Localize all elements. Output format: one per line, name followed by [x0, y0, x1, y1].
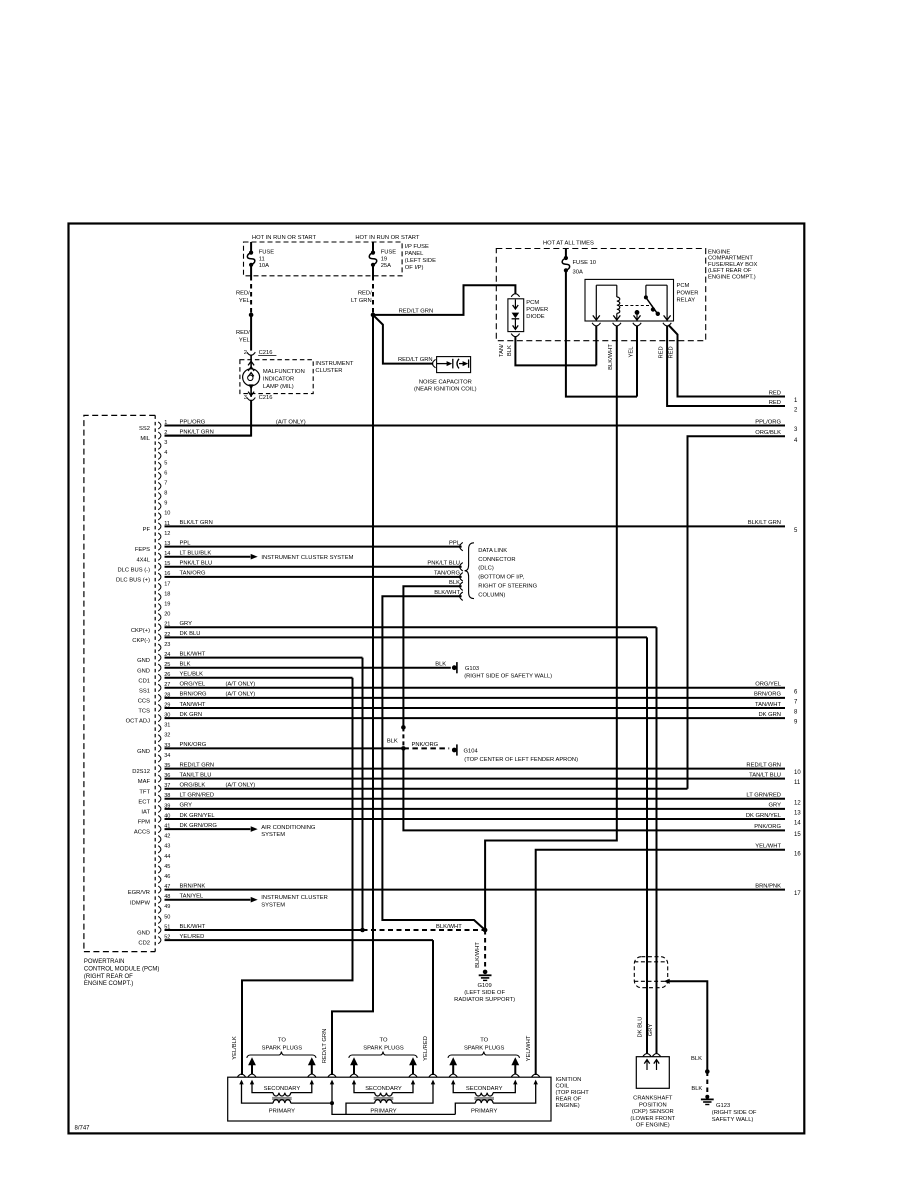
svg-text:ACCS: ACCS — [134, 830, 150, 836]
svg-text:5: 5 — [164, 460, 167, 466]
svg-text:CONTROL MODULE (PCM): CONTROL MODULE (PCM) — [84, 966, 159, 972]
svg-text:C216: C216 — [259, 350, 273, 356]
PCM pin 1 — [158, 422, 161, 429]
svg-text:D2S12: D2S12 — [132, 769, 150, 775]
PCM pin 45 — [158, 866, 161, 873]
svg-text:RED/LT GRN: RED/LT GRN — [180, 762, 215, 768]
svg-text:17: 17 — [164, 581, 170, 587]
svg-text:DLC BUS (-): DLC BUS (-) — [117, 567, 150, 573]
splice dot RED/YEL — [249, 313, 254, 318]
wire RED relay T4 diagonal row1 — [669, 325, 786, 397]
PCM pin 36 — [158, 775, 161, 782]
border frame — [69, 224, 805, 1134]
coil 2 primary winding — [346, 1103, 375, 1114]
svg-text:PRIMARY: PRIMARY — [471, 1108, 497, 1114]
wire pin39 GRY to right edge row 13 — [165, 808, 786, 810]
svg-text:43: 43 — [164, 844, 170, 850]
PCM pin 2 — [158, 432, 161, 439]
svg-text:(DLC): (DLC) — [478, 566, 494, 572]
svg-text:PNK/LT GRN: PNK/LT GRN — [180, 429, 214, 435]
svg-text:3: 3 — [244, 395, 247, 401]
wire BLK dashed to G123 — [706, 1072, 708, 1097]
PCM pin 14 — [158, 553, 161, 560]
svg-text:BLK: BLK — [449, 580, 460, 586]
malfunction indicator lamp (MIL) — [243, 369, 260, 386]
svg-text:YEL/WHT: YEL/WHT — [526, 1035, 532, 1061]
wire pin25 BLK to G103 — [165, 667, 451, 669]
svg-text:G109: G109 — [478, 983, 492, 989]
svg-text:4X4L: 4X4L — [136, 557, 150, 563]
PCM pin 39 — [158, 805, 161, 812]
svg-text:PANEL: PANEL — [405, 251, 424, 257]
svg-text:POWERTRAIN: POWERTRAIN — [84, 959, 125, 965]
svg-text:DLC BUS (+): DLC BUS (+) — [116, 578, 150, 584]
svg-text:RED/LT GRN: RED/LT GRN — [746, 762, 781, 768]
svg-text:3: 3 — [164, 440, 167, 446]
svg-text:(RIGHT SIDE OF SAFETY WALL): (RIGHT SIDE OF SAFETY WALL) — [464, 674, 552, 680]
coil 3 secondary winding — [453, 1082, 475, 1093]
svg-text:YEL: YEL — [239, 337, 251, 343]
svg-text:CD1: CD1 — [138, 678, 150, 684]
svg-text:YEL/BLK: YEL/BLK — [180, 672, 204, 678]
svg-text:FUSE: FUSE — [259, 250, 275, 256]
svg-text:AIR CONDITIONING: AIR CONDITIONING — [261, 825, 316, 831]
svg-text:BLK: BLK — [387, 739, 398, 745]
svg-text:IGNITION: IGNITION — [556, 1077, 582, 1083]
svg-text:FUSE/RELAY BOX: FUSE/RELAY BOX — [708, 262, 758, 268]
svg-text:(BOTTOM OF I/P,: (BOTTOM OF I/P, — [478, 575, 524, 581]
wire fuse19 top stub — [372, 242, 374, 253]
svg-text:GRY: GRY — [648, 1024, 654, 1037]
svg-text:10: 10 — [164, 511, 170, 517]
svg-text:GND: GND — [137, 668, 150, 674]
svg-text:TAN/YEL: TAN/YEL — [180, 894, 205, 900]
wire PNK/ORG vertical to row 15 — [403, 748, 785, 830]
svg-text:RED: RED — [769, 390, 781, 396]
svg-text:SYSTEM: SYSTEM — [261, 902, 285, 908]
fuse 10 30A — [564, 256, 568, 260]
wire DLC BLK down to G104 splice — [403, 586, 461, 726]
svg-text:INDICATOR: INDICATOR — [263, 377, 294, 383]
svg-text:DK BLU: DK BLU — [638, 1017, 644, 1038]
svg-text:RIGHT OF STEERING: RIGHT OF STEERING — [478, 584, 537, 590]
relay switch — [646, 284, 667, 286]
svg-text:(RIGHT REAR OF: (RIGHT REAR OF — [84, 974, 133, 980]
junction RED/LT GRN — [371, 313, 376, 318]
svg-text:8: 8 — [164, 491, 167, 497]
svg-text:(LOWER FRONT: (LOWER FRONT — [630, 1116, 675, 1122]
engine compartment fuse/relay box (dashed) — [496, 249, 705, 341]
svg-text:COIL: COIL — [556, 1083, 570, 1089]
svg-text:13: 13 — [794, 810, 801, 816]
wire pin22 DK BLU to CKP sensor vertical — [165, 636, 648, 638]
wire out of MIL lamp — [250, 386, 252, 397]
svg-text:OF I/P): OF I/P) — [405, 265, 424, 271]
PCM pin 40 — [158, 815, 161, 822]
svg-text:25A: 25A — [381, 263, 391, 269]
wire BLK/WHT relay T2 down — [485, 326, 617, 930]
svg-text:(A/T ONLY): (A/T ONLY) — [226, 783, 256, 789]
connector C216 pin 2 — [247, 352, 255, 355]
svg-text:POWER: POWER — [677, 290, 699, 296]
svg-text:LT BLU/BLK: LT BLU/BLK — [180, 551, 212, 557]
ground G123 — [705, 1095, 709, 1099]
wire pin13 PPL to DLC — [165, 546, 462, 548]
wire fuse10 down to YEL link — [566, 270, 637, 396]
svg-text:GRY: GRY — [769, 803, 782, 809]
svg-text:G103: G103 — [465, 666, 479, 672]
fuse 19 25A — [371, 251, 375, 255]
connector C216 pin 3 — [247, 398, 255, 401]
PCM pin 31 — [158, 725, 161, 732]
svg-text:(LEFT SIDE OF: (LEFT SIDE OF — [464, 990, 505, 996]
powertrain control module (PCM) dashed box — [84, 415, 155, 951]
svg-text:FEPS: FEPS — [135, 547, 150, 553]
svg-text:PPL: PPL — [180, 540, 192, 546]
svg-text:CCS: CCS — [138, 699, 150, 705]
wire pin24 BLK/WHT to junction vertical — [165, 657, 363, 659]
relay terminal connectors — [592, 323, 600, 326]
svg-text:MIL: MIL — [140, 436, 150, 442]
svg-text:MALFUNCTION: MALFUNCTION — [263, 369, 305, 375]
coil 2 core — [374, 1098, 394, 1100]
svg-text:11: 11 — [794, 780, 801, 786]
coil supply rail RED/LT GRN — [332, 1082, 455, 1115]
wire pin48 TAN/YEL arrow to instrument cluster — [165, 899, 251, 901]
svg-text:BRN/PNK: BRN/PNK — [755, 883, 781, 889]
wire fuse19 RED/LT GRN — [372, 265, 374, 276]
wire pin14 LT BLU/BLK arrow to instrument cluster system — [165, 556, 251, 558]
wire pin15 PNK/LT BLU to DLC — [165, 566, 462, 568]
svg-text:DK GRN/YEL: DK GRN/YEL — [180, 813, 216, 819]
PCM pin 21 — [158, 624, 161, 631]
svg-text:6: 6 — [164, 470, 167, 476]
svg-text:ENGINE): ENGINE) — [556, 1103, 580, 1109]
coil 2 secondary winding — [354, 1082, 375, 1093]
svg-text:(RIGHT SIDE OF: (RIGHT SIDE OF — [712, 1110, 757, 1116]
svg-text:YEL/WHT: YEL/WHT — [755, 844, 781, 850]
wire pin33 PNK/ORG to G104 splice — [165, 747, 404, 749]
svg-text:BRN/PNK: BRN/PNK — [180, 883, 206, 889]
svg-text:CONNECTOR: CONNECTOR — [478, 557, 515, 563]
PCM pin 34 — [158, 755, 161, 762]
wire pin38 LT GRN/RED to right edge row 12 — [165, 798, 786, 800]
PCM pin 22 — [158, 634, 161, 641]
svg-text:SECONDARY: SECONDARY — [264, 1086, 301, 1092]
wire pin26 YEL/BLK to coil vertical — [165, 677, 353, 679]
svg-text:19: 19 — [164, 602, 170, 608]
svg-text:RELAY: RELAY — [677, 298, 696, 304]
svg-text:INSTRUMENT CLUSTER: INSTRUMENT CLUSTER — [261, 895, 328, 901]
svg-text:9: 9 — [164, 501, 167, 507]
svg-text:15: 15 — [794, 832, 801, 838]
svg-text:BLK/WHT: BLK/WHT — [180, 651, 206, 657]
svg-text:FUSE 10: FUSE 10 — [573, 260, 597, 266]
svg-text:G123: G123 — [716, 1103, 730, 1109]
svg-text:PNK/LT BLU: PNK/LT BLU — [427, 561, 460, 567]
PCM pin 28 — [158, 694, 161, 701]
svg-text:(LEFT SIDE: (LEFT SIDE — [405, 258, 436, 264]
svg-text:PNK/ORG: PNK/ORG — [180, 742, 207, 748]
PCM pin 33 — [158, 745, 161, 752]
svg-text:12: 12 — [794, 800, 801, 806]
svg-text:GRY: GRY — [180, 803, 193, 809]
svg-text:BLK: BLK — [435, 662, 446, 668]
svg-text:CKP(+): CKP(+) — [131, 628, 150, 634]
svg-text:IAT: IAT — [141, 810, 150, 816]
svg-text:TFT: TFT — [139, 789, 150, 795]
svg-text:(A/T ONLY): (A/T ONLY) — [276, 419, 306, 425]
svg-text:BLK/WHT: BLK/WHT — [475, 942, 481, 968]
svg-text:RED/: RED/ — [236, 290, 250, 296]
wire fuse10 stub — [565, 249, 567, 259]
wire pin27 ORG/YEL to right edge row 6 — [165, 687, 786, 689]
svg-text:(TOP RIGHT: (TOP RIGHT — [556, 1090, 590, 1096]
wire BLK dashed splice segment — [402, 727, 404, 748]
PCM pin 50 — [158, 916, 161, 923]
wire pin40 DK GRN/YEL to right edge row 14 — [165, 818, 786, 820]
wire pin51 BLK/WHT dashed to G109 junction — [363, 929, 486, 931]
svg-text:YEL/BLK: YEL/BLK — [232, 1036, 238, 1060]
svg-text:DK BLU: DK BLU — [180, 631, 201, 637]
PCM pin 52 — [158, 937, 161, 944]
svg-text:31: 31 — [164, 723, 170, 729]
svg-text:G104: G104 — [464, 748, 479, 754]
wire RED/LT GRN main vertical to ignition coil — [332, 315, 373, 1075]
svg-text:CLUSTER: CLUSTER — [315, 368, 342, 374]
wire fuse11 to splice (RED/YEL) — [250, 265, 252, 276]
wire PNK/ORG dashed to G104 — [403, 747, 449, 749]
svg-text:BLK/WHT: BLK/WHT — [608, 344, 614, 370]
svg-text:RED/: RED/ — [358, 290, 372, 296]
svg-text:RED/LT GRN: RED/LT GRN — [322, 1029, 328, 1064]
PCM pin 17 — [158, 583, 161, 590]
PCM pin 16 — [158, 573, 161, 580]
ground G104 — [452, 748, 457, 753]
svg-text:IDMPW: IDMPW — [130, 900, 150, 906]
wire DLC BLK/WHT down to G109 junction — [382, 596, 485, 930]
svg-text:TO: TO — [480, 1038, 488, 1044]
svg-text:SYSTEM: SYSTEM — [261, 832, 285, 838]
PCM pin 41 — [158, 826, 161, 833]
svg-text:23: 23 — [164, 642, 170, 648]
instrument cluster dashed box — [240, 360, 313, 394]
relay coil winding — [617, 297, 620, 313]
svg-text:TAN/: TAN/ — [499, 344, 505, 357]
wire pin47 BRN/PNK to right edge row 17 — [165, 889, 786, 891]
svg-text:GND: GND — [137, 749, 150, 755]
svg-text:SPARK PLUGS: SPARK PLUGS — [262, 1046, 303, 1052]
svg-text:ORG/BLK: ORG/BLK — [755, 430, 781, 436]
svg-text:YEL/RED: YEL/RED — [180, 934, 205, 940]
svg-text:TO: TO — [278, 1038, 286, 1044]
PCM pin 5 — [158, 462, 161, 469]
svg-text:20: 20 — [164, 612, 170, 618]
svg-text:49: 49 — [164, 904, 170, 910]
wire fuse11 top stub — [250, 242, 252, 253]
svg-text:SS1: SS1 — [139, 688, 150, 694]
coil 1 primary winding — [242, 1082, 274, 1103]
svg-text:BRN/ORG: BRN/ORG — [180, 692, 208, 698]
wire BLK/WHT pin24 vertical to pin51 junction — [362, 658, 364, 930]
svg-text:C216: C216 — [259, 395, 273, 401]
wire GRY pin21 to CKP — [656, 627, 658, 1054]
PCM power relay — [585, 279, 674, 321]
svg-text:INSTRUMENT CLUSTER SYSTEM: INSTRUMENT CLUSTER SYSTEM — [261, 555, 353, 561]
svg-text:DK GRN/YEL: DK GRN/YEL — [746, 813, 782, 819]
svg-text:12: 12 — [164, 531, 170, 537]
wire pin35 RED/LT GRN to right edge row 10 — [165, 768, 786, 770]
svg-text:BLK/WHT: BLK/WHT — [180, 924, 206, 930]
svg-text:MAF: MAF — [138, 779, 151, 785]
svg-text:10A: 10A — [259, 263, 269, 269]
coil 1 secondary winding — [252, 1082, 273, 1093]
PCM pin 32 — [158, 735, 161, 742]
coil 3 primary winding — [455, 1103, 475, 1114]
PCM pin 51 — [158, 926, 161, 933]
wire pin21 GRY to CKP sensor vertical — [165, 626, 657, 628]
svg-text:RED: RED — [658, 346, 664, 358]
svg-text:LT GRN/RED: LT GRN/RED — [746, 793, 781, 799]
PCM pin 10 — [158, 513, 161, 520]
svg-text:TCS: TCS — [138, 709, 150, 715]
svg-text:I/P FUSE: I/P FUSE — [405, 244, 429, 250]
svg-text:(NEAR IGNITION COIL): (NEAR IGNITION COIL) — [414, 387, 477, 393]
svg-text:34: 34 — [164, 753, 170, 759]
svg-text:LT GRN: LT GRN — [351, 298, 372, 304]
svg-text:4: 4 — [164, 450, 167, 456]
svg-text:POWER: POWER — [526, 307, 548, 313]
PCM pin 48 — [158, 896, 161, 903]
wire pin1 PPL/ORG to right edge row 3 — [165, 425, 786, 427]
coil 3 core — [474, 1098, 494, 1100]
svg-text:DATA LINK: DATA LINK — [478, 548, 507, 554]
junction dot pin51/pin24 — [360, 928, 365, 933]
svg-text:TAN/LT BLU: TAN/LT BLU — [180, 772, 212, 778]
svg-text:TAN/ORG: TAN/ORG — [180, 571, 206, 577]
svg-text:2: 2 — [244, 350, 247, 356]
PCM pin 20 — [158, 614, 161, 621]
junction dot G109 — [483, 928, 488, 933]
crankshaft position (CKP) sensor — [636, 1057, 669, 1089]
svg-text:BLK: BLK — [691, 1086, 702, 1092]
relay linkage (dashed) — [620, 305, 653, 307]
PCM pin 3 — [158, 442, 161, 449]
svg-text:BLK: BLK — [180, 662, 191, 668]
ignition coil box — [228, 1077, 551, 1121]
svg-text:DIODE: DIODE — [526, 314, 544, 320]
PCM pin 29 — [158, 704, 161, 711]
svg-text:TAN/LT BLU: TAN/LT BLU — [749, 772, 781, 778]
PCM pin 6 — [158, 472, 161, 479]
svg-text:COMPARTMENT: COMPARTMENT — [708, 256, 753, 262]
svg-text:CKP(-): CKP(-) — [132, 638, 150, 644]
svg-text:18: 18 — [164, 591, 170, 597]
wire RED relay T4 row2 — [667, 326, 785, 406]
wire RED/LT GRN feed to PCM power diode — [373, 285, 515, 315]
svg-text:RED: RED — [669, 346, 675, 358]
svg-text:SECONDARY: SECONDARY — [466, 1086, 503, 1092]
PCM pin 38 — [158, 795, 161, 802]
svg-text:OF ENGINE): OF ENGINE) — [636, 1123, 670, 1129]
svg-text:TAN/WHT: TAN/WHT — [180, 702, 206, 708]
svg-text:BLK: BLK — [691, 1056, 702, 1062]
PCM pin 26 — [158, 674, 161, 681]
PCM pin 7 — [158, 482, 161, 489]
svg-text:32: 32 — [164, 733, 170, 739]
svg-text:PPL: PPL — [449, 540, 461, 546]
wire pin37 ORG/BLK to vertical — [165, 788, 688, 790]
svg-text:POSITION: POSITION — [639, 1102, 667, 1108]
PCM pin 49 — [158, 906, 161, 913]
svg-text:42: 42 — [164, 834, 170, 840]
svg-text:RED/: RED/ — [236, 330, 250, 336]
wire RED/YEL to C216 — [250, 315, 252, 351]
PCM pin 15 — [158, 563, 161, 570]
junction dot G104 (pin 33) — [401, 746, 406, 751]
svg-text:TAN/ORG: TAN/ORG — [434, 571, 460, 577]
DLC brace — [465, 543, 474, 599]
PCM pin 47 — [158, 886, 161, 893]
svg-text:PRIMARY: PRIMARY — [269, 1108, 295, 1114]
PCM pin 24 — [158, 654, 161, 661]
noise capacitor — [433, 359, 436, 367]
spark plug leads — [251, 1064, 253, 1074]
svg-text:44: 44 — [164, 854, 170, 860]
PCM power diode — [511, 294, 519, 297]
svg-text:ENGINE COMPT.): ENGINE COMPT.) — [708, 275, 756, 281]
wire DK BLU pin22 to CKP — [646, 637, 648, 1054]
svg-text:RED: RED — [769, 400, 781, 406]
svg-text:DK GRN: DK GRN — [180, 712, 203, 718]
PCM pin 18 — [158, 593, 161, 600]
PCM pin 13 — [158, 543, 161, 550]
svg-text:(A/T ONLY): (A/T ONLY) — [226, 692, 256, 698]
data link connector (DLC) — [460, 542, 463, 550]
wire BLK/WHT dashed to G109 — [484, 930, 486, 969]
svg-text:PPL/ORG: PPL/ORG — [180, 419, 206, 425]
svg-text:GND: GND — [137, 931, 150, 937]
PCM pin 44 — [158, 856, 161, 863]
svg-text:BRN/ORG: BRN/ORG — [754, 692, 782, 698]
svg-text:COLUMN): COLUMN) — [478, 592, 505, 598]
svg-text:(CKP) SENSOR: (CKP) SENSOR — [632, 1109, 674, 1115]
PCM pin 19 — [158, 604, 161, 611]
PCM pin 11 — [158, 523, 161, 530]
svg-text:ENGINE COMPT.): ENGINE COMPT.) — [84, 981, 133, 987]
I/P fuse panel dashed box — [244, 242, 403, 276]
wire RED/LT GRN branch to noise capacitor — [373, 315, 433, 364]
svg-text:19: 19 — [381, 256, 387, 262]
svg-text:PRIMARY: PRIMARY — [370, 1108, 396, 1114]
wire TAN/BLK diode to relay T1 — [515, 336, 596, 365]
svg-text:PCM: PCM — [677, 283, 690, 289]
svg-text:ECT: ECT — [138, 799, 150, 805]
PCM pin 25 — [158, 664, 161, 671]
svg-text:SECONDARY: SECONDARY — [365, 1086, 402, 1092]
svg-text:BLK/LT GRN: BLK/LT GRN — [180, 520, 213, 526]
svg-text:RED/LT GRN: RED/LT GRN — [398, 357, 433, 363]
PCM connector edge (dashed) — [154, 415, 156, 951]
PCM pin 46 — [158, 876, 161, 883]
svg-text:11: 11 — [259, 256, 265, 262]
svg-text:HOT IN RUN OR START: HOT IN RUN OR START — [252, 235, 317, 241]
wire YEL/WHT row 16 from coil — [536, 850, 785, 1075]
wire into MIL lamp — [250, 355, 252, 370]
svg-text:DK GRN/ORG: DK GRN/ORG — [180, 823, 218, 829]
wire YEL/BLK pin26 vertical to coil — [242, 678, 353, 1075]
svg-text:ORG/YEL: ORG/YEL — [180, 682, 207, 688]
